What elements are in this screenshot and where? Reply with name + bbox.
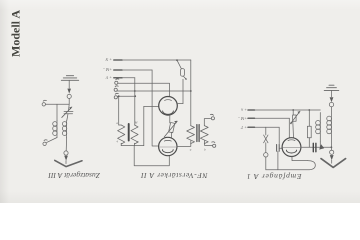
svg-text:m: m: [136, 140, 139, 144]
svg-text:+M –: +M –: [237, 116, 247, 121]
svg-text:+ n: + n: [241, 107, 247, 112]
svg-text:a: a: [190, 148, 192, 152]
svg-text:Empfänger A 1: Empfänger A 1: [246, 172, 302, 181]
svg-text:NF-Verstärker A II: NF-Verstärker A II: [141, 171, 209, 180]
svg-text:Zusatzgerät A III: Zusatzgerät A III: [48, 171, 100, 180]
svg-text:+ N: + N: [105, 57, 112, 62]
svg-text:b: b: [204, 148, 206, 152]
svg-text:+M –: +M –: [102, 67, 112, 72]
svg-text:+ V: + V: [105, 75, 112, 80]
svg-text:4: 4: [116, 140, 118, 144]
svg-text:M: M: [134, 120, 138, 124]
svg-text:a: a: [116, 121, 118, 125]
svg-text:Modell A: Modell A: [9, 10, 23, 57]
svg-text:+ T: + T: [240, 125, 247, 130]
